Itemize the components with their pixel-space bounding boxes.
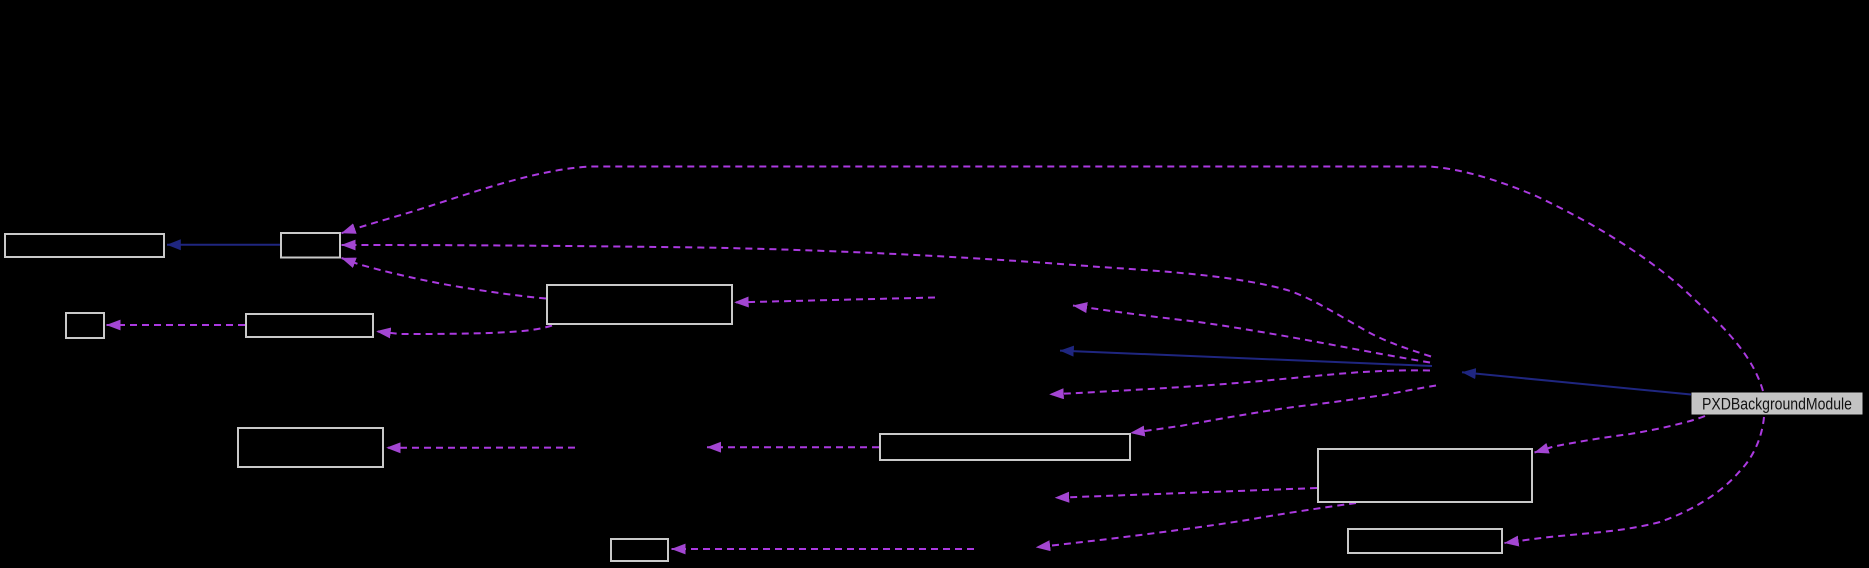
node PXDBackgroundModule: [1692, 393, 1862, 414]
wire edge fan to NodeY: [1073, 306, 1430, 363]
wire edge Node8 to NodeX: [707, 446, 879, 448]
wire edge Node3 to Node2 bottom: [342, 258, 547, 299]
wire edge NodeY to Node3: [735, 298, 936, 303]
wire edge NodeV to Node7: [672, 548, 975, 550]
wire edge Node9 to NodeU: [1055, 488, 1317, 498]
wire edge PXDBackgroundModule to Node10 arc: [1505, 417, 1765, 543]
node B3: [547, 285, 732, 324]
node B9: [1318, 449, 1532, 502]
wire edge PXDBackgroundModule to Node2 top arc: [342, 167, 1764, 392]
wire edge fan to NodeW: [1050, 370, 1431, 394]
node B10: [1348, 529, 1502, 553]
wire edge Node5 to Node4: [107, 324, 246, 326]
wire inheritance PXDBackgroundModule to HM blue: [1462, 372, 1691, 394]
node B2: [281, 233, 340, 258]
wire edge Node9 to NodeV: [1036, 503, 1356, 547]
wire edge Node3 to Node5: [377, 326, 553, 335]
node B1: [5, 234, 164, 257]
wire edge PXDBackgroundModule to Node9: [1535, 416, 1706, 453]
node B6: [238, 428, 383, 467]
wire edge NodeX to Node6: [387, 447, 576, 449]
node B5: [246, 314, 373, 337]
node B7: [611, 539, 668, 561]
node B4: [66, 313, 104, 338]
svg-text:PXDBackgroundModule: PXDBackgroundModule: [1702, 396, 1852, 414]
wire inheritance HM to NodeZ blue: [1060, 351, 1432, 366]
wire inheritance Node2 to Node1 blue: [167, 244, 280, 246]
wire edge fan to Node8 corner: [1131, 386, 1437, 434]
wire edge fan to Node2 middle: [342, 245, 1432, 357]
node B8: [880, 434, 1130, 460]
